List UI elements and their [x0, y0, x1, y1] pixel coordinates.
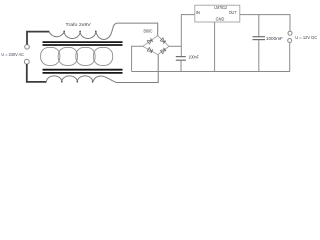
svg-text:1000mF: 1000mF	[266, 36, 283, 41]
node: DC output terminal -	[288, 39, 292, 43]
wire: regulator OUT to + output terminal	[240, 15, 290, 32]
diode D2 (upper right)	[160, 38, 166, 44]
svg-text:B80C: B80C	[144, 28, 153, 33]
wire: regulator GND pin to ground rail	[214, 22, 216, 72]
wire: bottom AC terminal to transformer bottom winding left	[27, 64, 47, 82]
svg-text:U = 12V DC: U = 12V DC	[295, 35, 318, 40]
regulator U1 LM7812 box	[195, 5, 240, 22]
capacitor C2 plates	[253, 36, 266, 38]
wire: bridge DC- (left corner) down to ground rail	[132, 46, 143, 71]
diode D3 (lower left)	[147, 48, 153, 54]
transformer core lines	[43, 42, 123, 73]
wire: bridge DC+ (right corner) to junction	[169, 45, 181, 47]
capacitor C1 top lead	[180, 46, 182, 56]
diode D1 (upper left)	[147, 38, 153, 44]
transformer T1 top winding + wire to bridge AC1 (top corner)	[49, 23, 158, 39]
node: DC output terminal +	[288, 31, 292, 35]
svg-text:U = 230V AC: U = 230V AC	[1, 52, 24, 58]
svg-text:LM7812: LM7812	[214, 5, 227, 10]
diode D4 (lower right)	[160, 48, 166, 54]
svg-text:OUT: OUT	[229, 10, 237, 15]
wire: top AC terminal to transformer primary left	[27, 32, 49, 45]
svg-text:IN: IN	[196, 10, 200, 15]
winding cusp knots	[63, 31, 96, 33]
svg-text:GND: GND	[216, 17, 225, 22]
transformer T1 bottom winding + wire to bridge AC2 (bottom corner)	[46, 55, 158, 83]
wire: ground rail	[132, 71, 290, 73]
svg-text:100nF: 100nF	[188, 54, 199, 59]
bottom winding cusp knots	[61, 81, 93, 83]
capacitor C1 plates	[176, 56, 186, 58]
wire: junction up to regulator input	[181, 15, 195, 47]
capacitor C2 top lead	[258, 15, 260, 37]
node: AC input terminal N (bottom left)	[24, 59, 29, 64]
capacitor C2 bottom lead	[258, 40, 260, 71]
node: AC input terminal L (top left)	[25, 45, 30, 50]
transformer T1 middle winding loops	[41, 47, 113, 65]
bridge rectifier B1 diamond	[143, 36, 169, 55]
svg-text:Trafo 2x9V: Trafo 2x9V	[66, 22, 92, 27]
wire: - output terminal down to ground rail	[289, 43, 291, 72]
capacitor C1 bottom lead	[180, 61, 182, 72]
